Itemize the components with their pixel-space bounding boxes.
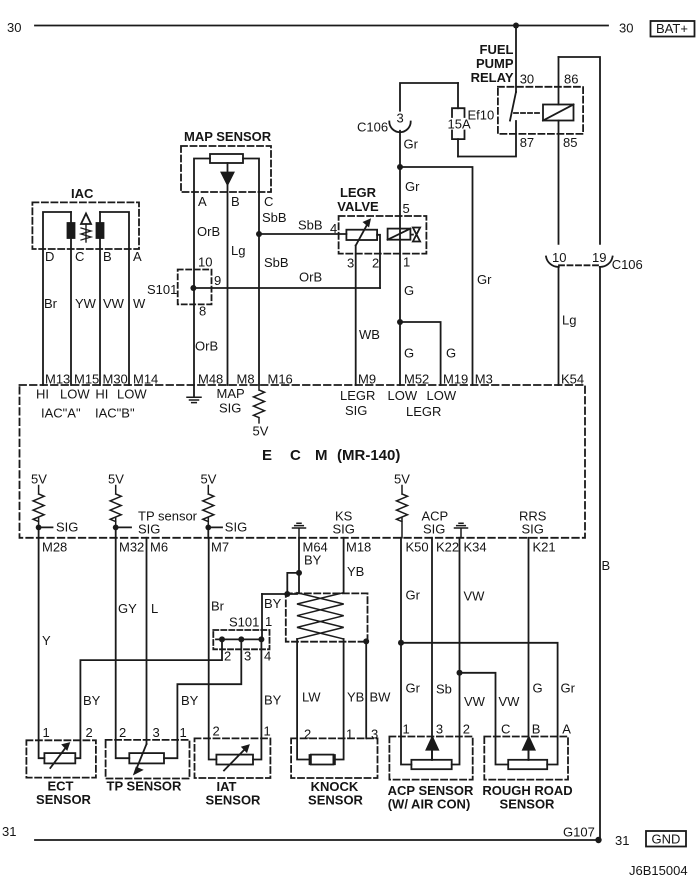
svg-text:IAC"A": IAC"A"	[41, 406, 81, 421]
svg-text:LW: LW	[302, 690, 321, 705]
svg-text:IAC"B": IAC"B"	[95, 406, 135, 421]
svg-text:2: 2	[372, 256, 379, 271]
svg-text:SIG: SIG	[56, 520, 78, 535]
svg-text:Lg: Lg	[231, 243, 245, 258]
svg-text:VW: VW	[464, 589, 486, 604]
svg-text:A: A	[562, 722, 571, 737]
svg-text:Ef10: Ef10	[468, 108, 495, 123]
svg-text:8: 8	[199, 304, 206, 319]
svg-text:M48: M48	[198, 372, 223, 387]
svg-text:MAP: MAP	[217, 386, 245, 401]
svg-text:M3: M3	[475, 372, 493, 387]
svg-text:M18: M18	[346, 540, 371, 555]
svg-text:C106: C106	[357, 120, 388, 135]
svg-text:M30: M30	[103, 372, 128, 387]
svg-text:M52: M52	[404, 372, 429, 387]
svg-text:31: 31	[2, 824, 16, 839]
svg-text:YB: YB	[347, 564, 364, 579]
svg-text:RELAY: RELAY	[471, 70, 514, 85]
svg-text:5V: 5V	[201, 472, 217, 487]
svg-text:HI: HI	[95, 387, 108, 402]
svg-text:30: 30	[520, 72, 534, 87]
svg-text:(W/ AIR CON): (W/ AIR CON)	[388, 797, 471, 812]
svg-text:1: 1	[265, 614, 272, 629]
svg-text:C: C	[75, 249, 84, 264]
svg-text:E: E	[262, 447, 272, 464]
svg-text:C: C	[501, 722, 510, 737]
svg-text:86: 86	[564, 72, 578, 87]
svg-text:VW: VW	[499, 694, 521, 709]
svg-text:MAP SENSOR: MAP SENSOR	[184, 129, 272, 144]
svg-text:SENSOR: SENSOR	[308, 793, 364, 808]
svg-text:HI: HI	[36, 387, 49, 402]
svg-text:K22: K22	[436, 540, 459, 555]
svg-text:L: L	[151, 601, 158, 616]
svg-text:M19: M19	[443, 372, 468, 387]
svg-text:M6: M6	[150, 540, 168, 555]
svg-text:YW: YW	[75, 296, 97, 311]
svg-text:G: G	[404, 346, 414, 361]
svg-text:B: B	[602, 558, 611, 573]
svg-text:S101: S101	[147, 282, 177, 297]
svg-text:BY: BY	[304, 553, 322, 568]
svg-text:M9: M9	[358, 372, 376, 387]
svg-text:LOW: LOW	[117, 387, 147, 402]
svg-text:D: D	[45, 249, 54, 264]
svg-text:SIG: SIG	[138, 522, 160, 537]
svg-text:1: 1	[403, 255, 410, 270]
svg-text:SIG: SIG	[333, 522, 355, 537]
svg-text:G: G	[404, 283, 414, 298]
svg-text:W: W	[133, 296, 146, 311]
svg-text:OrB: OrB	[197, 224, 220, 239]
svg-text:Y: Y	[42, 633, 51, 648]
svg-text:1: 1	[264, 724, 271, 739]
svg-text:M28: M28	[42, 540, 67, 555]
svg-text:Gr: Gr	[561, 681, 576, 696]
svg-text:M14: M14	[133, 372, 158, 387]
svg-text:M7: M7	[211, 540, 229, 555]
svg-text:TP SENSOR: TP SENSOR	[107, 779, 183, 794]
svg-text:VALVE: VALVE	[337, 199, 379, 214]
svg-text:1: 1	[346, 727, 353, 742]
svg-text:OrB: OrB	[195, 339, 218, 354]
svg-text:Gr: Gr	[406, 681, 421, 696]
svg-text:SbB: SbB	[264, 255, 289, 270]
svg-text:S101: S101	[229, 615, 259, 630]
svg-text:FUEL: FUEL	[480, 42, 514, 57]
svg-text:K34: K34	[464, 540, 487, 555]
svg-text:Gr: Gr	[406, 588, 421, 603]
svg-text:3: 3	[153, 725, 160, 740]
svg-text:VW: VW	[103, 296, 125, 311]
svg-text:1: 1	[180, 725, 187, 740]
svg-text:(MR-140): (MR-140)	[337, 447, 400, 464]
svg-text:SENSOR: SENSOR	[500, 797, 556, 812]
svg-text:SENSOR: SENSOR	[36, 792, 92, 807]
svg-text:SIG: SIG	[522, 522, 544, 537]
svg-text:3: 3	[244, 649, 251, 664]
svg-text:B: B	[231, 194, 240, 209]
svg-text:A: A	[133, 249, 142, 264]
svg-text:LEGR: LEGR	[340, 185, 377, 200]
svg-text:SbB: SbB	[262, 210, 287, 225]
svg-text:9: 9	[214, 273, 221, 288]
svg-text:2: 2	[86, 725, 93, 740]
svg-text:C: C	[290, 447, 301, 464]
svg-text:2: 2	[119, 725, 126, 740]
svg-text:5V: 5V	[253, 424, 269, 439]
svg-text:IAC: IAC	[71, 186, 94, 201]
svg-text:BY: BY	[83, 693, 101, 708]
svg-text:GY: GY	[118, 601, 137, 616]
svg-text:4: 4	[330, 221, 337, 236]
svg-text:31: 31	[615, 833, 629, 848]
svg-text:YB: YB	[347, 690, 364, 705]
svg-text:C106: C106	[612, 257, 643, 272]
svg-text:Gr: Gr	[477, 272, 492, 287]
svg-text:VW: VW	[464, 694, 486, 709]
svg-text:LOW: LOW	[427, 388, 457, 403]
svg-text:SbB: SbB	[298, 218, 323, 233]
svg-text:10: 10	[552, 250, 566, 265]
svg-text:SIG: SIG	[219, 401, 241, 416]
svg-text:K54: K54	[561, 372, 584, 387]
svg-text:BW: BW	[370, 690, 392, 705]
svg-text:3: 3	[397, 111, 404, 126]
svg-text:M13: M13	[45, 372, 70, 387]
svg-text:M: M	[315, 447, 328, 464]
svg-text:SIG: SIG	[345, 403, 367, 418]
svg-text:2: 2	[224, 649, 231, 664]
svg-text:2: 2	[304, 727, 311, 742]
svg-text:5V: 5V	[31, 472, 47, 487]
svg-text:BY: BY	[264, 693, 282, 708]
svg-text:OrB: OrB	[299, 270, 322, 285]
svg-text:Gr: Gr	[405, 179, 420, 194]
svg-text:B: B	[103, 249, 112, 264]
svg-text:G: G	[533, 681, 543, 696]
svg-text:PUMP: PUMP	[476, 56, 514, 71]
svg-text:M16: M16	[268, 372, 293, 387]
svg-text:Gr: Gr	[404, 137, 419, 152]
svg-text:2: 2	[463, 722, 470, 737]
svg-text:87: 87	[520, 135, 534, 150]
svg-text:4: 4	[264, 649, 271, 664]
svg-text:BY: BY	[264, 596, 282, 611]
svg-text:LEGR: LEGR	[340, 388, 375, 403]
svg-text:SENSOR: SENSOR	[206, 793, 262, 808]
svg-text:2: 2	[213, 724, 220, 739]
svg-text:LOW: LOW	[388, 388, 418, 403]
svg-text:10: 10	[198, 255, 212, 270]
svg-text:K50: K50	[406, 540, 429, 555]
svg-text:M32: M32	[119, 540, 144, 555]
svg-text:3: 3	[371, 727, 378, 742]
svg-text:BAT+: BAT+	[656, 21, 688, 36]
svg-text:G107: G107	[563, 825, 595, 840]
svg-text:1: 1	[43, 725, 50, 740]
svg-text:M15: M15	[74, 372, 99, 387]
svg-text:Br: Br	[44, 296, 58, 311]
svg-text:5V: 5V	[108, 472, 124, 487]
svg-text:G: G	[446, 346, 456, 361]
svg-text:3: 3	[436, 722, 443, 737]
svg-text:LOW: LOW	[60, 387, 90, 402]
svg-text:Sb: Sb	[436, 682, 452, 697]
svg-text:3: 3	[347, 256, 354, 271]
svg-text:SIG: SIG	[423, 522, 445, 537]
svg-text:B: B	[532, 722, 541, 737]
svg-text:A: A	[198, 194, 207, 209]
svg-text:WB: WB	[359, 327, 380, 342]
svg-text:M8: M8	[237, 372, 255, 387]
svg-text:30: 30	[619, 21, 633, 36]
svg-text:30: 30	[7, 20, 21, 35]
svg-text:19: 19	[592, 250, 606, 265]
svg-text:5V: 5V	[394, 472, 410, 487]
svg-text:GND: GND	[652, 832, 681, 847]
svg-text:SIG: SIG	[225, 520, 247, 535]
svg-text:Br: Br	[211, 599, 225, 614]
svg-text:1: 1	[403, 722, 410, 737]
svg-text:Lg: Lg	[562, 313, 576, 328]
svg-text:C: C	[264, 194, 273, 209]
svg-text:K21: K21	[533, 540, 556, 555]
svg-text:BY: BY	[181, 693, 199, 708]
svg-text:J6B15004: J6B15004	[629, 863, 688, 878]
svg-text:5: 5	[403, 201, 410, 216]
svg-text:85: 85	[563, 135, 577, 150]
svg-text:LEGR: LEGR	[406, 404, 441, 419]
